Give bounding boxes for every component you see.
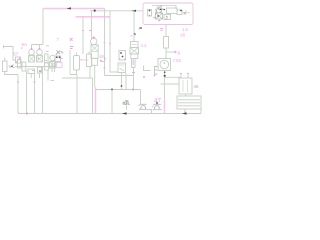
U1 output lead [165, 25, 167, 37]
coil T0b circle [37, 49, 43, 55]
wire riser x126 [125, 73, 127, 90]
T1 cross [91, 45, 98, 52]
ground bus [18, 113, 201, 115]
arrow junction into box [132, 10, 137, 12]
D1 inner mark [119, 65, 125, 71]
wire to connector [166, 51, 175, 53]
C5 stub [126, 106, 128, 110]
wire gray horizontal to box U1 [90, 10, 143, 12]
wire drop v1 [18, 75, 20, 114]
T2 marks [132, 44, 137, 46]
U1 input component [148, 10, 152, 17]
cap pair C4 [132, 59, 136, 68]
bus right riser [200, 109, 202, 114]
pink dots on leads [180, 73, 189, 75]
resistor R4 horizontal [28, 69, 35, 74]
wire drop v2 [26, 71, 28, 114]
pink mark 5b [70, 47, 74, 49]
U1 cluster box2 [167, 8, 178, 14]
U1 input dot [149, 10, 151, 12]
highlighted drop pink v [95, 87, 97, 114]
T4 pink drop [184, 109, 186, 114]
svg-text:e5: e5 [181, 33, 186, 38]
wire vertical x90 [91, 11, 93, 39]
T1 bottom lead [94, 65, 96, 87]
wire drop v6 [92, 78, 94, 114]
wire drop v4 [42, 67, 44, 114]
T2 bottom box [131, 54, 138, 59]
R6 top stub [88, 52, 90, 55]
pink speck on riser [89, 30, 91, 32]
wire drop v5 [76, 75, 78, 114]
U1 small box3 [164, 15, 171, 20]
output transistor Q2 box [179, 78, 192, 94]
T0b cross [37, 56, 43, 63]
wire drop v7 [111, 90, 113, 114]
C4 lead down [133, 68, 135, 90]
wire y78 [62, 77, 93, 79]
U1 dark dots [158, 10, 166, 17]
C7 arch [155, 106, 160, 109]
jack J1 bracket [155, 67, 158, 75]
battery B1 [3, 61, 8, 72]
driver transformer T3 box [158, 59, 171, 71]
resistor R1 [45, 54, 49, 63]
pink dot [100, 60, 102, 62]
U1 right cluster box [177, 10, 182, 15]
Q3 dots [120, 52, 122, 54]
wire top of cans [32, 45, 44, 50]
wire vertical from pink1 left end [42, 9, 44, 45]
pink x mark [70, 38, 73, 41]
U1 right marks [183, 11, 190, 15]
T2 dark tick [134, 34, 136, 35]
R1 pink tick [47, 51, 49, 53]
highlighted pink drop [164, 100, 166, 114]
Q1 dot [56, 56, 58, 58]
svg-text:47: 47 [154, 98, 161, 105]
oscillator coil T0 circle [29, 49, 35, 55]
U1 right dark dot [180, 10, 182, 12]
pink dot on bus [26, 113, 28, 115]
C3 pink tick [81, 59, 83, 61]
wire y89.5 agc [96, 89, 141, 91]
pink specks cluster [32, 59, 47, 72]
T0c cross [50, 62, 56, 69]
pink speck on riser2 [82, 30, 84, 32]
U1 speckles [158, 9, 168, 18]
wire to output stage [165, 74, 188, 78]
pink box below Q1 [57, 63, 63, 68]
pink dot branch [143, 76, 145, 78]
D1 lead dot [121, 85, 123, 87]
switch S1 pink [10, 65, 14, 68]
U1 pink dots [154, 6, 168, 21]
bus arrow right [182, 112, 187, 114]
C6 arch [141, 106, 146, 109]
wire y84 [161, 83, 180, 85]
svg-text:4.2: 4.2 [141, 43, 148, 48]
T0b pink top dot [39, 48, 41, 50]
T3 center dot [164, 62, 166, 64]
detector D1 box [118, 63, 126, 73]
T1 pink top dot [93, 37, 95, 39]
branch wire right [144, 66, 151, 71]
T2 box lower [130, 48, 139, 55]
resistor R3 [22, 62, 26, 71]
C4 pink middle [132, 60, 134, 66]
U1 bottom-left dark mark [140, 27, 143, 29]
C6 pink tick [138, 104, 140, 106]
D1 bottom lead [121, 73, 123, 90]
wire vertical x83 from pink2 [82, 17, 84, 54]
C7 dot [156, 102, 158, 104]
Q1 pink dots [54, 55, 63, 60]
T0c core box [50, 62, 56, 69]
resistor R5b [45, 63, 49, 71]
Q1 dot b [59, 56, 61, 58]
T2 cross [130, 48, 139, 55]
wire drop x70 [69, 50, 71, 75]
C5 top tick [125, 100, 128, 102]
svg-text:46: 46 [194, 84, 199, 89]
T3 circle [160, 60, 169, 69]
Q2 to T4 link [185, 94, 187, 96]
switch pink marks [9, 66, 15, 68]
output transformer T4 box [177, 96, 201, 109]
bus arrow left [122, 112, 127, 114]
C7 pink tick [152, 105, 154, 107]
svg-text:1.5: 1.5 [182, 27, 188, 32]
svg-text:7: 7 [57, 37, 60, 42]
wire highlighted net pink1 top [43, 8, 105, 10]
svg-text:9: 9 [178, 51, 181, 56]
U1 right pink dot [184, 13, 186, 15]
T1 core box [91, 45, 98, 59]
svg-text:7.62: 7.62 [173, 58, 182, 63]
IF transformer T1 circle [91, 38, 97, 44]
cross marks x2 [57, 51, 64, 55]
arrow on pink1 net [67, 7, 72, 9]
coil T0c circle [50, 55, 56, 61]
pink tick node [104, 67, 106, 69]
U1 cluster circle [156, 8, 161, 13]
wire highlighted net pink2 [76, 16, 111, 18]
T4 winding lines [178, 100, 200, 106]
Q3 pink specks [119, 58, 126, 61]
resistor R7 [164, 37, 169, 49]
stub wires [31, 70, 48, 81]
T2 pink tick [131, 35, 133, 37]
wire drop v3 [34, 74, 36, 114]
J1 pink dot [154, 75, 156, 77]
transistor Q3 box [119, 51, 126, 61]
T0 core box [29, 56, 35, 63]
C6 leads [141, 90, 152, 114]
svg-text:57: 57 [13, 52, 19, 57]
pink tick v1 [17, 81, 19, 83]
junction dot [94, 10, 96, 12]
pink mark below box [160, 29, 163, 31]
U1 cluster marks [155, 7, 164, 19]
R6 bottom lead [90, 67, 93, 79]
mixer Q1 body [55, 56, 61, 62]
resistor R5 [38, 67, 42, 73]
IF transformer T2 box upper [131, 42, 139, 48]
electrolytic C3 body [74, 56, 80, 71]
C6 base [139, 108, 148, 110]
resistor R2 [18, 60, 22, 69]
switch dot [11, 66, 13, 68]
pink dot near cross [61, 52, 63, 54]
U1 bottom pink seg [155, 24, 193, 26]
R7 bottom lead [165, 48, 167, 59]
U1 cluster box [156, 13, 163, 19]
tick near C2 [51, 80, 55, 82]
Q2 inner leads [183, 80, 188, 92]
connector arrow pink 9 [175, 51, 178, 54]
trimmer arrow pink [16, 57, 21, 62]
pink specks risers [104, 43, 111, 44]
U1 inner wire top [152, 6, 176, 10]
resistor R6 tall [87, 54, 92, 67]
wire vertical x108.6 [110, 11, 118, 72]
junction dot [164, 75, 166, 77]
wire y75.5 [105, 75, 134, 77]
junction dot [111, 89, 113, 91]
C4 dot [133, 72, 135, 74]
main mid bus wire [15, 66, 55, 68]
capacitor C6 top plate [140, 103, 147, 105]
C7 base [153, 109, 163, 111]
capacitor C2 plates [52, 60, 55, 72]
tick [46, 45, 49, 47]
U1 bottom-left pink mark [139, 28, 140, 30]
svg-text:5A: 5A [22, 42, 29, 47]
T3 bottom lead [164, 71, 166, 101]
T0 cross [29, 56, 35, 63]
pink tick v3 [34, 81, 36, 83]
junction dot b [164, 71, 166, 73]
sub-circuit box U1 [143, 3, 193, 25]
C3 bottom lead [70, 70, 77, 75]
pink dot on wire [132, 89, 134, 91]
T0 pink top dot [31, 48, 33, 50]
trimmer capacitor CT [16, 57, 21, 63]
capacitor C5 symbol [123, 101, 130, 105]
gray marks near Kd [101, 58, 106, 62]
wire vertical x134 to T2 [133, 11, 135, 42]
capacitor C7 top plate [153, 103, 161, 105]
T0b core box [37, 56, 43, 63]
battery leads [5, 58, 18, 75]
R5 dot [39, 70, 41, 72]
U1 input pink dot [149, 15, 151, 17]
antenna input wire [4, 45, 16, 60]
pink dash wire [81, 59, 89, 61]
C3 top stub [76, 53, 78, 56]
T1 lower box [92, 58, 98, 65]
tick antenna [21, 47, 24, 49]
wire vertical x103.5 [104, 9, 106, 76]
